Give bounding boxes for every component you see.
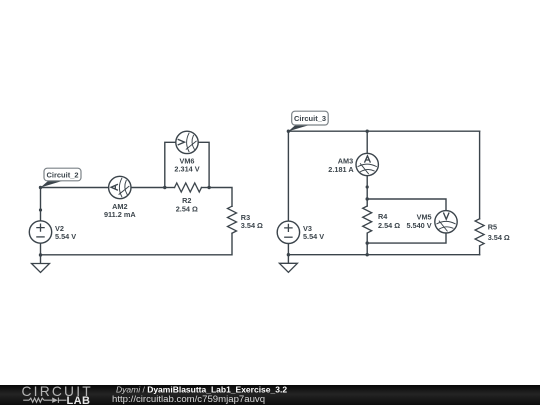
wire: R3 bottom to bottom rail xyxy=(41,234,233,255)
svg-text:3.54 Ω: 3.54 Ω xyxy=(241,221,263,230)
labels for AM3 xyxy=(328,157,354,174)
labels for VM5 xyxy=(406,213,431,231)
svg-text:911.2 mA: 911.2 mA xyxy=(104,210,136,219)
svg-text:3.54 Ω: 3.54 Ω xyxy=(488,233,510,242)
wire: top rail circuit 3 xyxy=(288,130,479,132)
node: ground junction circuit 2 xyxy=(39,253,42,256)
labels for AM2 xyxy=(104,202,136,219)
svg-text:Circuit_3: Circuit_3 xyxy=(294,114,326,123)
svg-text:Circuit_2: Circuit_2 xyxy=(46,170,78,179)
resistor R4 xyxy=(363,206,372,233)
label callout Circuit_3 xyxy=(288,111,328,131)
labels for R2 xyxy=(176,196,198,213)
node: AM3 top tee xyxy=(366,130,369,133)
svg-text:http://circuitlab.com/c759mjap: http://circuitlab.com/c759mjap7auvq xyxy=(112,394,265,405)
resistor R2 xyxy=(165,183,209,192)
voltage source V2 xyxy=(29,221,51,243)
labels for R4 xyxy=(378,212,400,230)
node A (top-left junction, circuit 2) xyxy=(39,186,42,189)
svg-text:2.181 A: 2.181 A xyxy=(328,165,354,174)
wire: VM5 branch top xyxy=(367,199,446,211)
wire: VM6 left branch xyxy=(165,142,176,187)
voltage source V3 xyxy=(277,221,299,243)
ammeter AM3 xyxy=(356,153,378,175)
svg-text:R5: R5 xyxy=(488,223,497,232)
wire: left rail down to V3 xyxy=(287,131,289,221)
svg-text:2.54 Ω: 2.54 Ω xyxy=(378,221,400,230)
svg-text:2.314 V: 2.314 V xyxy=(174,165,199,174)
wire: AM3 bottom to R4 top xyxy=(366,176,368,206)
labels for R3 xyxy=(241,213,263,230)
wire: R5 branch top lead xyxy=(479,131,481,219)
svg-text:LAB: LAB xyxy=(67,395,91,405)
svg-text:2.54 Ω: 2.54 Ω xyxy=(176,204,198,213)
resistor R5 xyxy=(475,219,484,246)
wire: AM2 right terminal to R2 left node xyxy=(131,187,165,189)
wire: V3 bottom to ground node xyxy=(287,243,289,254)
node: V3 ground junction xyxy=(287,253,290,256)
resistor R3 xyxy=(228,206,237,233)
node: R2 right xyxy=(207,186,210,189)
labels for R5 xyxy=(488,223,510,242)
wire: R5 bottom lead xyxy=(479,246,481,254)
voltmeter VM5 xyxy=(435,211,457,233)
labels for VM6 xyxy=(174,157,199,174)
CircuitLab logo: resistor-diode squiggle xyxy=(23,398,66,403)
ground (circuit 3) xyxy=(279,255,297,273)
svg-text:5.54 V: 5.54 V xyxy=(55,232,76,241)
wire: R2 right node to top-right corner and down to R3 xyxy=(209,188,232,207)
wire: R4 bottom to bottom rail xyxy=(366,234,368,255)
voltmeter VM6 xyxy=(176,131,198,153)
svg-text:R4: R4 xyxy=(378,212,388,221)
wire: top rail from node A to AM2 left terminal xyxy=(41,187,109,189)
wire: bottom rail circuit 3 xyxy=(288,254,479,256)
node: R4 bottom rail tee xyxy=(366,253,369,256)
node: circuit 3 top-left corner xyxy=(287,130,290,133)
node: R2 left xyxy=(163,186,166,189)
node: VM5 bottom tee xyxy=(366,241,369,244)
wire: left rail from node A down to V2 top xyxy=(40,188,42,221)
node: VM5 top tee xyxy=(366,197,369,200)
labels for V2 xyxy=(55,224,76,241)
labels for V3 xyxy=(303,224,324,241)
label callout Circuit_2 xyxy=(41,168,82,187)
ammeter AM2 xyxy=(109,176,131,198)
node: AM3 bottom joint xyxy=(366,185,369,188)
svg-text:5.540 V: 5.540 V xyxy=(406,221,431,230)
wire: VM5 branch bottom xyxy=(367,233,446,243)
wire: VM6 right branch xyxy=(198,142,209,187)
ground (circuit 2) xyxy=(32,255,50,273)
svg-text:5.54 V: 5.54 V xyxy=(303,232,324,241)
wire: AM3 branch top xyxy=(366,131,368,153)
node: wire joint above V2 xyxy=(39,208,42,211)
wire: V2 bottom to ground node xyxy=(40,243,42,255)
